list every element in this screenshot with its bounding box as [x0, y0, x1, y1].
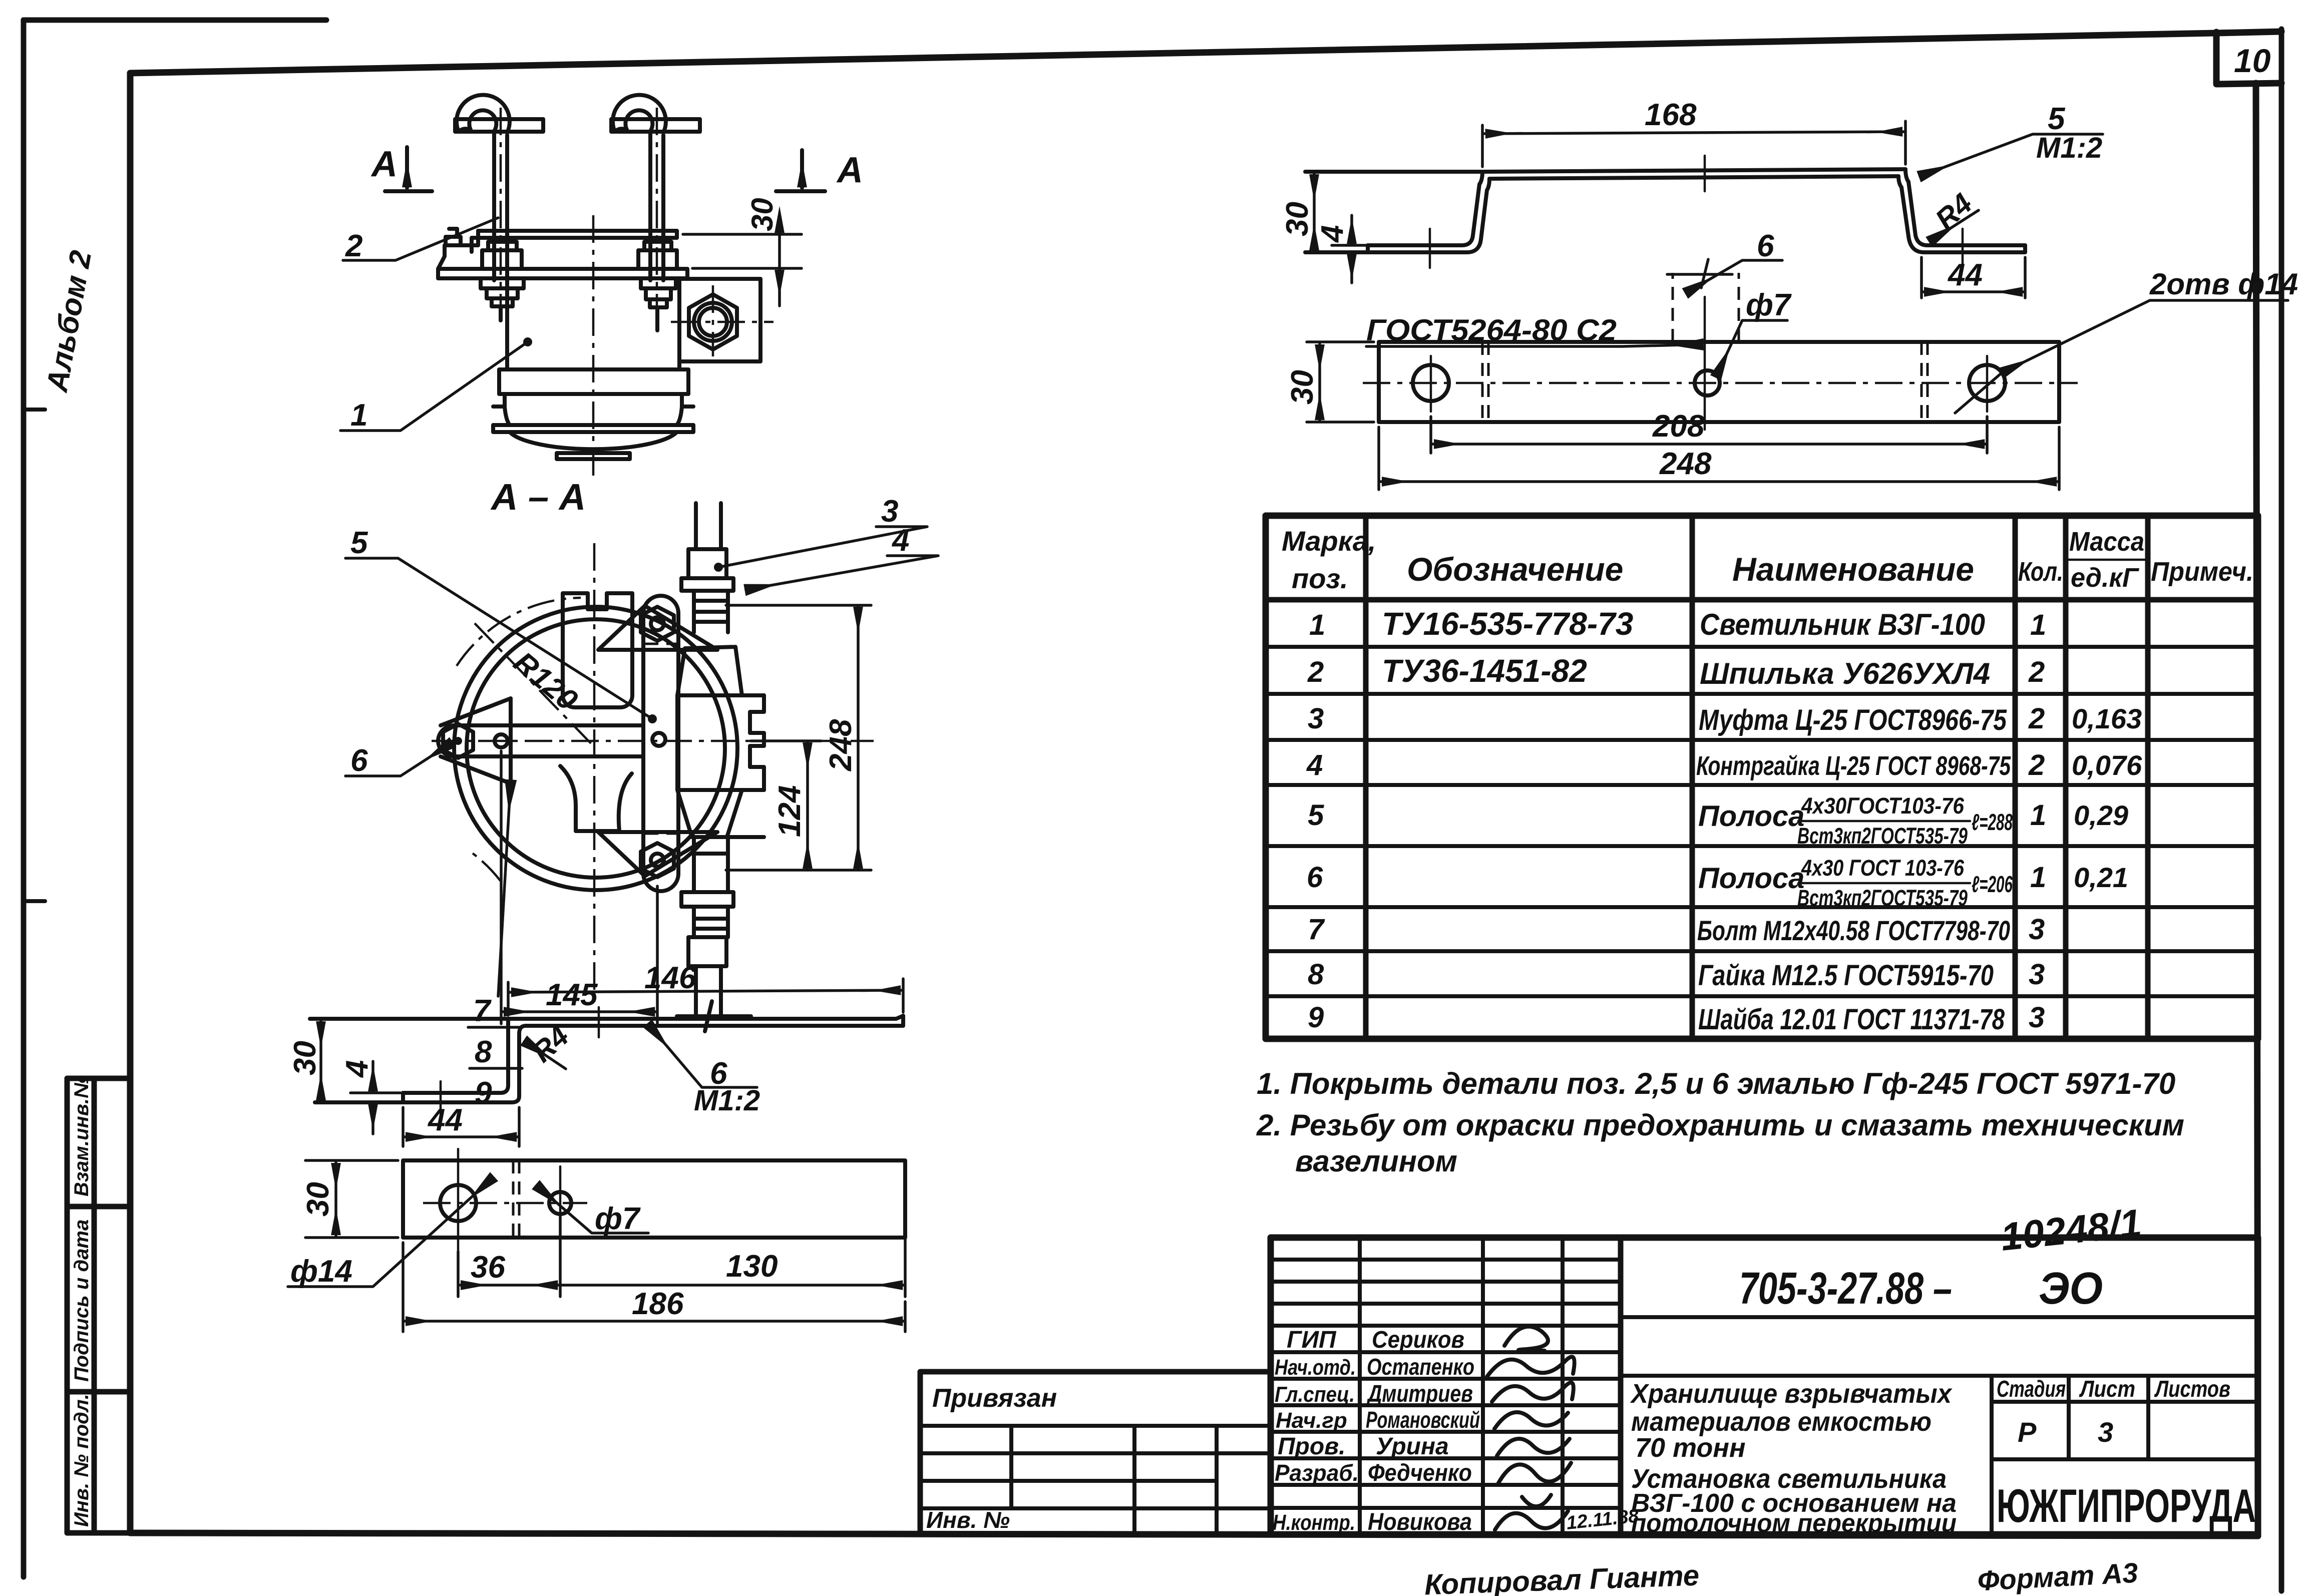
- svg-text:ГИП: ГИП: [1287, 1327, 1337, 1353]
- svg-text:Урина: Урина: [1376, 1433, 1449, 1460]
- svg-text:Наименование: Наименование: [1732, 551, 1974, 588]
- svg-text:Муфта Ц-25 ГОСТ8966-75: Муфта Ц-25 ГОСТ8966-75: [1699, 704, 2007, 736]
- svg-text:36: 36: [471, 1250, 505, 1285]
- svg-text:Вст3кп2ГОСТ535-79: Вст3кп2ГОСТ535-79: [1797, 823, 1968, 849]
- svg-text:Полоса: Полоса: [1698, 862, 1804, 895]
- svg-text:2отв ф14: 2отв ф14: [2149, 267, 2298, 301]
- svg-text:Привязан: Привязан: [932, 1384, 1057, 1413]
- svg-text:2: 2: [345, 229, 362, 263]
- svg-text:30: 30: [1285, 370, 1320, 405]
- svg-text:А: А: [836, 150, 863, 190]
- svg-text:1: 1: [2030, 861, 2046, 894]
- svg-text:Кол.: Кол.: [2018, 557, 2063, 587]
- svg-text:ГОСТ5264-80 С2: ГОСТ5264-80 С2: [1366, 313, 1617, 347]
- svg-text:208: 208: [1652, 409, 1705, 444]
- svg-text:Нач.отд.: Нач.отд.: [1275, 1355, 1356, 1380]
- svg-text:ℓ=206: ℓ=206: [1972, 871, 2013, 897]
- svg-text:Гл.спец.: Гл.спец.: [1275, 1382, 1355, 1407]
- svg-text:0,29: 0,29: [2074, 800, 2128, 831]
- svg-text:Листов: Листов: [2154, 1376, 2230, 1402]
- svg-text:Н.контр.: Н.контр.: [1273, 1510, 1355, 1535]
- svg-text:Инв. №: Инв. №: [926, 1507, 1010, 1533]
- svg-text:8: 8: [1308, 958, 1324, 991]
- svg-text:1: 1: [1309, 609, 1325, 641]
- svg-text:ℓ=288: ℓ=288: [1972, 809, 2013, 835]
- svg-text:Лист: Лист: [2079, 1376, 2135, 1402]
- svg-text:Взам.инв.№: Взам.инв.№: [71, 1075, 93, 1196]
- svg-text:3: 3: [2029, 1001, 2045, 1034]
- svg-text:Пров.: Пров.: [1278, 1433, 1346, 1460]
- svg-text:705-3-27.88 –: 705-3-27.88 –: [1739, 1264, 1952, 1314]
- svg-text:Дмитриев: Дмитриев: [1366, 1381, 1473, 1407]
- svg-text:8: 8: [475, 1035, 492, 1069]
- svg-text:0,163: 0,163: [2072, 703, 2142, 734]
- svg-text:материалов емкостью: материалов емкостью: [1631, 1407, 1932, 1437]
- svg-text:Масса: Масса: [2069, 527, 2144, 557]
- svg-text:А: А: [370, 144, 398, 184]
- svg-text:4: 4: [340, 1060, 374, 1078]
- svg-text:Вст3кп2ГОСТ535-79: Вст3кп2ГОСТ535-79: [1797, 885, 1968, 911]
- svg-text:6: 6: [350, 743, 368, 778]
- svg-text:30: 30: [1280, 202, 1315, 236]
- svg-text:Романовский: Романовский: [1366, 1407, 1480, 1433]
- svg-text:3: 3: [1308, 702, 1324, 735]
- svg-text:5: 5: [1308, 799, 1324, 832]
- svg-text:5: 5: [350, 526, 368, 560]
- svg-text:Подпись и дата: Подпись и дата: [71, 1220, 93, 1382]
- svg-text:Болт М12х40.58 ГОСТ7798-70: Болт М12х40.58 ГОСТ7798-70: [1697, 915, 2010, 946]
- svg-text:4х30 ГОСТ 103-76: 4х30 ГОСТ 103-76: [1801, 855, 1965, 881]
- svg-text:Федченко: Федченко: [1368, 1460, 1472, 1486]
- svg-text:3: 3: [2098, 1416, 2113, 1448]
- svg-text:30: 30: [288, 1041, 322, 1075]
- svg-text:5: 5: [2048, 102, 2066, 136]
- svg-text:2: 2: [2028, 656, 2045, 688]
- svg-text:7: 7: [1308, 913, 1325, 946]
- svg-text:44: 44: [1947, 258, 1983, 292]
- svg-text:7: 7: [473, 994, 492, 1028]
- svg-text:Контргайка Ц-25 ГОСТ 8968-75: Контргайка Ц-25 ГОСТ 8968-75: [1696, 751, 2011, 781]
- svg-text:186: 186: [632, 1287, 684, 1321]
- svg-text:ф7: ф7: [1746, 288, 1792, 322]
- svg-text:9: 9: [1308, 1001, 1324, 1034]
- svg-text:Хранилище взрывчатых: Хранилище взрывчатых: [1630, 1379, 1953, 1409]
- svg-text:Разраб.: Разраб.: [1275, 1460, 1359, 1486]
- svg-text:1: 1: [2030, 609, 2046, 641]
- svg-text:4: 4: [1315, 225, 1350, 243]
- svg-text:Сериков: Сериков: [1372, 1327, 1464, 1353]
- svg-text:Марка,: Марка,: [1282, 525, 1376, 557]
- svg-text:1. Покрыть детали поз. 2,5 и: 1. Покрыть детали поз. 2,5 и 6 эмалью Гф…: [1257, 1067, 2175, 1100]
- svg-text:145: 145: [546, 978, 598, 1012]
- svg-text:0,21: 0,21: [2074, 862, 2128, 893]
- svg-text:ТУ36-1451-82: ТУ36-1451-82: [1382, 653, 1587, 689]
- svg-text:3: 3: [2029, 958, 2045, 991]
- svg-text:ТУ16-535-778-73: ТУ16-535-778-73: [1382, 606, 1633, 642]
- svg-text:30: 30: [745, 198, 779, 231]
- svg-text:Полоса: Полоса: [1698, 800, 1804, 833]
- svg-text:Инв. № подл.: Инв. № подл.: [71, 1394, 93, 1527]
- svg-text:2: 2: [1307, 656, 1324, 688]
- svg-text:вазелином: вазелином: [1295, 1144, 1457, 1178]
- svg-text:6: 6: [1307, 861, 1323, 894]
- svg-text:70 тонн: 70 тонн: [1635, 1433, 1746, 1463]
- svg-text:поз.: поз.: [1292, 563, 1348, 594]
- svg-text:2: 2: [2028, 702, 2045, 735]
- svg-text:124: 124: [773, 785, 807, 837]
- svg-text:М1:2: М1:2: [2036, 132, 2102, 164]
- svg-text:248: 248: [824, 719, 858, 771]
- svg-text:30: 30: [301, 1182, 335, 1217]
- svg-text:4: 4: [891, 523, 909, 558]
- svg-text:1: 1: [2030, 799, 2046, 832]
- svg-text:М1:2: М1:2: [694, 1084, 760, 1117]
- svg-text:0,076: 0,076: [2072, 749, 2142, 781]
- svg-text:3: 3: [2029, 913, 2045, 946]
- svg-text:Шпилька У626УХЛ4: Шпилька У626УХЛ4: [1700, 657, 1990, 690]
- svg-text:ЭО: ЭО: [2039, 1264, 2103, 1314]
- svg-text:ф7: ф7: [595, 1202, 641, 1236]
- svg-text:2. Резьбу от окраски предох: 2. Резьбу от окраски предохранить и смаз…: [1256, 1108, 2184, 1142]
- svg-text:168: 168: [1645, 98, 1697, 132]
- svg-text:Стадия: Стадия: [1997, 1376, 2066, 1402]
- svg-text:130: 130: [726, 1249, 778, 1284]
- svg-text:А – А: А – А: [490, 476, 586, 518]
- svg-text:Нач.гр: Нач.гр: [1276, 1408, 1347, 1433]
- svg-text:146: 146: [644, 961, 696, 995]
- svg-text:Р: Р: [2018, 1416, 2037, 1448]
- svg-text:248: 248: [1659, 447, 1712, 481]
- svg-text:ф14: ф14: [290, 1254, 352, 1289]
- svg-text:Остапенко: Остапенко: [1367, 1354, 1474, 1380]
- svg-text:4: 4: [1306, 749, 1323, 781]
- svg-text:2: 2: [2028, 749, 2045, 781]
- svg-text:4х30ГОСТ103-76: 4х30ГОСТ103-76: [1801, 793, 1965, 819]
- svg-text:Обозначение: Обозначение: [1407, 551, 1623, 588]
- svg-text:ЮЖГИПРОРУДА: ЮЖГИПРОРУДА: [1997, 1479, 2256, 1532]
- svg-text:Шайба 12.01 ГОСТ 11371-78: Шайба 12.01 ГОСТ 11371-78: [1698, 1003, 2005, 1036]
- svg-text:Гайка М12.5 ГОСТ5915-70: Гайка М12.5 ГОСТ5915-70: [1698, 959, 1994, 992]
- svg-text:Новикова: Новикова: [1368, 1509, 1472, 1535]
- svg-text:6: 6: [1757, 229, 1774, 263]
- svg-text:Светильник ВЗГ-100: Светильник ВЗГ-100: [1700, 608, 1985, 641]
- svg-text:Примеч.: Примеч.: [2151, 557, 2253, 587]
- svg-text:1: 1: [350, 398, 367, 433]
- svg-text:44: 44: [427, 1103, 463, 1137]
- svg-text:ед.кГ: ед.кГ: [2071, 563, 2140, 593]
- svg-text:10: 10: [2234, 42, 2271, 79]
- svg-text:потолочном перекрытии: потолочном перекрытии: [1631, 1509, 1957, 1538]
